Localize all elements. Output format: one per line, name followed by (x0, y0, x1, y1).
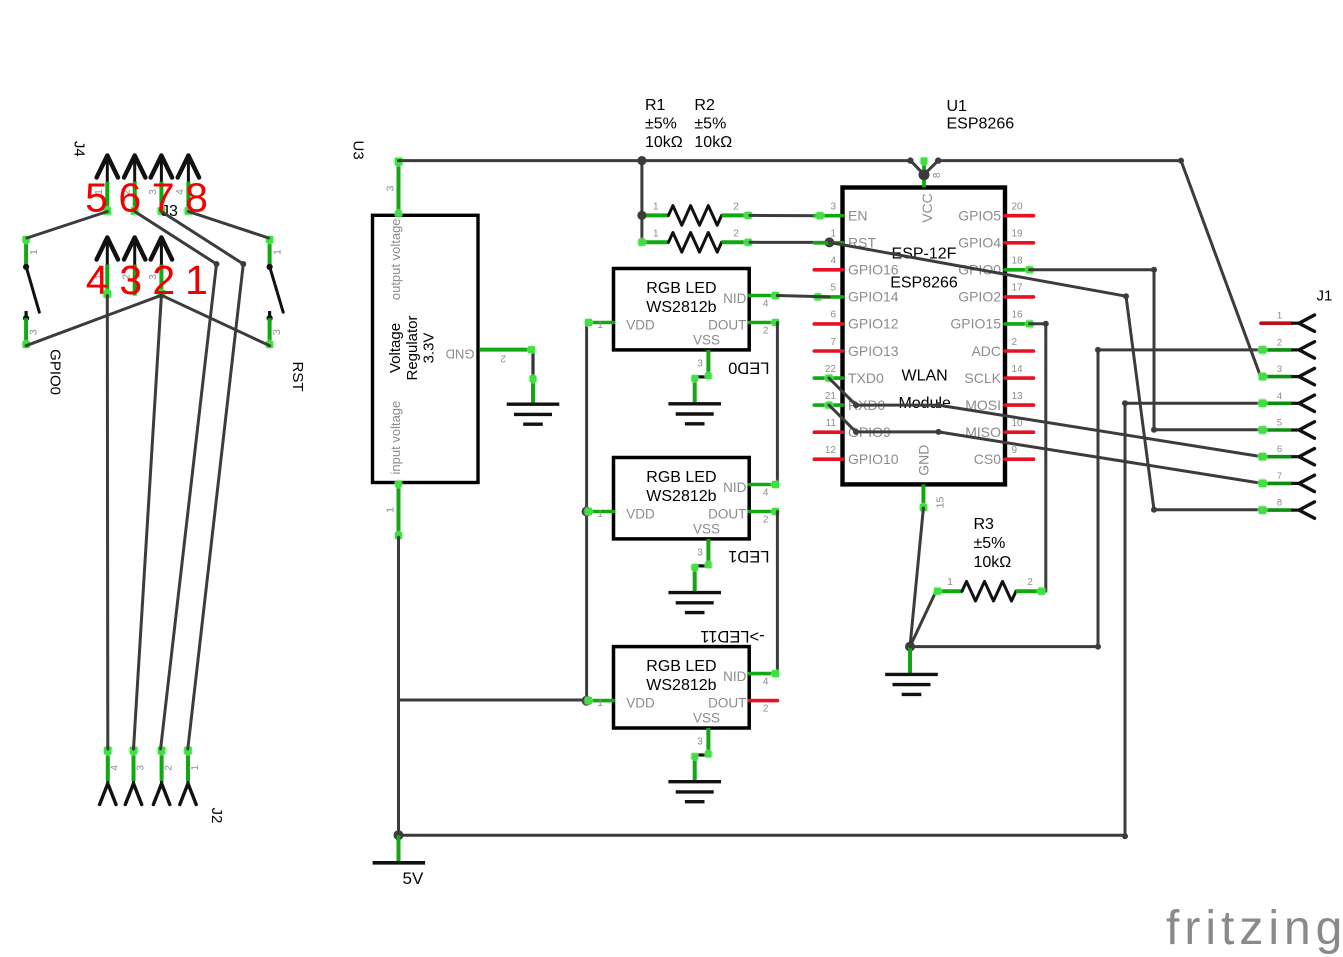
svg-text:2: 2 (152, 257, 175, 303)
svg-text:3.3V: 3.3V (420, 333, 437, 364)
resistor R3 (933, 577, 1047, 601)
svg-text:3: 3 (697, 547, 703, 558)
U1 VCC pin (919, 156, 943, 187)
svg-text:RGB LED: RGB LED (646, 469, 716, 486)
U1 pins and stubs (814, 202, 1033, 468)
resistor R2 (637, 229, 753, 253)
svg-text:DOUT: DOUT (708, 507, 746, 522)
RGB LED LED0 (WS2812b) (584, 269, 781, 404)
label LED0 (728, 358, 769, 376)
wire U1.RXD0 to J1.7 (829, 405, 1261, 483)
svg-text:2: 2 (1277, 337, 1282, 348)
wire VDD vertical rail (585, 323, 588, 701)
svg-text:22: 22 (825, 364, 837, 375)
svg-text:±5%: ±5% (645, 115, 677, 132)
svg-text:7: 7 (1277, 471, 1282, 482)
svg-text:1: 1 (1277, 311, 1282, 322)
svg-text:3: 3 (271, 329, 283, 335)
fritzing watermark (1166, 902, 1343, 955)
svg-text:2: 2 (763, 704, 769, 715)
svg-text:WS2812b: WS2812b (646, 677, 716, 694)
svg-text:RGB LED: RGB LED (646, 658, 716, 675)
wire R1.2 to U1.EN (750, 214, 829, 217)
wire J4.3 to J2.1 (161, 212, 246, 750)
svg-text:16: 16 (1012, 310, 1024, 321)
node 3.3V junction at VCC pin (919, 169, 930, 180)
connector J2 (100, 745, 225, 823)
wire GND junction to R3.1 (910, 591, 936, 646)
svg-text:GPIO12: GPIO12 (848, 316, 899, 332)
svg-text:GPIO14: GPIO14 (848, 289, 899, 305)
svg-text:1: 1 (385, 507, 397, 513)
power symbol 5V (373, 835, 426, 888)
svg-text:3: 3 (697, 358, 703, 369)
svg-text:J1: J1 (1317, 288, 1333, 305)
svg-text:GPIO10: GPIO10 (848, 451, 899, 467)
resistor R1 (637, 202, 753, 226)
label R2 value (694, 97, 732, 151)
svg-text:14: 14 (1012, 364, 1024, 375)
svg-text:8: 8 (932, 172, 943, 178)
wire U1.RST to J1.8 (829, 242, 1260, 512)
svg-text:input voltage: input voltage (388, 401, 403, 475)
wire VCC right diagonal (924, 157, 941, 174)
node RST junction (824, 237, 834, 247)
svg-text:J2: J2 (208, 807, 225, 823)
svg-text:1: 1 (653, 202, 659, 213)
svg-text:1: 1 (597, 320, 603, 331)
svg-text:VSS: VSS (693, 522, 720, 537)
U3 pin 2 GND lead (480, 345, 538, 404)
svg-text:output voltage: output voltage (388, 218, 403, 300)
svg-text:6: 6 (830, 310, 836, 321)
pushbutton RST (265, 235, 306, 392)
svg-text:LED1: LED1 (728, 547, 769, 565)
svg-text:10kΩ: 10kΩ (694, 134, 732, 151)
svg-text:2: 2 (1027, 577, 1033, 588)
label LED11 (700, 627, 764, 645)
svg-text:GPIO2: GPIO2 (958, 289, 1001, 305)
svg-text:4: 4 (763, 299, 769, 310)
svg-text:DOUT: DOUT (708, 696, 746, 711)
svg-text:2: 2 (763, 326, 769, 337)
svg-text:2: 2 (1012, 337, 1018, 348)
svg-text:VDD: VDD (626, 318, 655, 333)
svg-text:3: 3 (385, 185, 397, 191)
svg-text:R2: R2 (694, 97, 715, 114)
label R1 value (645, 97, 683, 151)
svg-text:R3: R3 (974, 516, 995, 533)
svg-text:NID: NID (723, 669, 747, 684)
svg-text:U1: U1 (947, 98, 968, 115)
RGB LED LED1 (WS2812b) (584, 458, 781, 593)
svg-text:4: 4 (1277, 391, 1282, 402)
ground (LED2) (668, 782, 721, 802)
svg-text:21: 21 (825, 391, 837, 402)
node 5V junction (394, 830, 404, 840)
wire U1.GPIO0 to J1.5 (1030, 267, 1261, 433)
svg-text:4: 4 (86, 257, 109, 303)
svg-text:15: 15 (935, 497, 947, 509)
svg-text:2: 2 (763, 515, 769, 526)
net labels 5 6 7 8 / 4 3 2 1 (85, 175, 208, 304)
wire LED0.DIN to U1.GPIO14 (777, 296, 829, 297)
svg-text:U3: U3 (349, 141, 366, 160)
wire J4.1 to GPIO0.1 (27, 212, 107, 239)
U3 pin 1 input (385, 479, 404, 540)
wire VCC left diagonal (907, 157, 924, 174)
svg-text:VSS: VSS (693, 333, 720, 348)
svg-text:VDD: VDD (626, 507, 655, 522)
label U1 (947, 98, 1015, 133)
node VDD at LED1 (582, 507, 592, 517)
U1 connected pin markers (813, 211, 1035, 410)
svg-text:1: 1 (190, 765, 201, 771)
svg-text:5: 5 (830, 283, 836, 294)
svg-text:NID: NID (723, 480, 747, 495)
svg-text:10kΩ: 10kΩ (974, 554, 1012, 571)
svg-text:1: 1 (830, 229, 836, 240)
U3 pin 3 output (385, 156, 404, 218)
wire U1.GPIO15 to R3.2 (1030, 321, 1049, 591)
svg-text:ADC: ADC (971, 343, 1001, 359)
svg-text:4: 4 (110, 765, 121, 771)
svg-text:17: 17 (1012, 283, 1024, 294)
connector J1 (1257, 288, 1332, 519)
svg-text:2: 2 (733, 229, 739, 240)
svg-text:Regulator: Regulator (404, 315, 421, 380)
wire R1/R2 feed (vertical) (640, 161, 643, 243)
svg-text:3: 3 (697, 737, 703, 748)
svg-text:SCLK: SCLK (964, 370, 1001, 386)
node VDD at LED2 (582, 696, 592, 706)
connector J4 (71, 141, 199, 217)
svg-text:1: 1 (947, 577, 953, 588)
svg-text:Module: Module (898, 395, 951, 412)
wire GPIO0.3 to J3.3 (26, 295, 161, 345)
svg-text:11: 11 (826, 418, 837, 429)
connector J3 (94, 203, 178, 299)
svg-text:RGB LED: RGB LED (646, 280, 716, 297)
wire J3.3 to J2.3 (134, 296, 162, 750)
svg-text:19: 19 (1012, 229, 1024, 240)
svg-text:6: 6 (118, 175, 141, 221)
svg-text:12: 12 (825, 445, 837, 456)
svg-text:EN: EN (848, 208, 867, 224)
svg-text:2: 2 (500, 353, 506, 364)
wire U3.1 to 5V (397, 537, 400, 835)
svg-text:20: 20 (1012, 202, 1024, 213)
svg-text:4: 4 (763, 677, 769, 688)
svg-text:3: 3 (119, 257, 142, 303)
wire J4.2 to J2.2 (135, 212, 220, 750)
svg-text:1: 1 (185, 257, 208, 303)
voltage regulator U3 (349, 141, 478, 483)
svg-text:3: 3 (135, 765, 146, 771)
wire LED1.DOUT to LED2.DIN (776, 512, 779, 674)
svg-text:±5%: ±5% (694, 115, 726, 132)
svg-text:1: 1 (597, 698, 603, 709)
wire 3.3V rail U3.3 to VCC (399, 159, 911, 162)
svg-text:±5%: ±5% (974, 535, 1006, 552)
wire LED0.DOUT to LED1.DIN (776, 323, 779, 485)
U1 GND pin (918, 484, 946, 512)
svg-text:CS0: CS0 (974, 451, 1001, 467)
ground (U1) (885, 647, 938, 695)
svg-text:18: 18 (1012, 256, 1024, 267)
svg-text:7: 7 (152, 175, 175, 221)
svg-text:9: 9 (1012, 445, 1018, 456)
svg-text:GPIO15: GPIO15 (950, 316, 1001, 332)
node GND junction (905, 642, 915, 652)
svg-text:VDD: VDD (626, 696, 655, 711)
svg-text:NID: NID (723, 291, 747, 306)
svg-text:VCC: VCC (919, 193, 935, 223)
op-amp U1 ESP8266 body (843, 188, 1006, 485)
wire VDD branch 5V to LEDs (399, 699, 587, 702)
svg-text:2: 2 (733, 202, 739, 213)
svg-text:WS2812b: WS2812b (646, 488, 716, 505)
svg-text:GND: GND (446, 346, 475, 361)
RGB LED LED2 (WS2812b) (584, 647, 781, 782)
svg-text:5V: 5V (403, 869, 424, 888)
wire 3.3V rail VCC to J1.3 (938, 161, 1260, 377)
wire RST.3 to J3.3 (162, 295, 270, 345)
svg-text:13: 13 (1012, 391, 1024, 402)
wire U1.GND down (910, 508, 923, 647)
svg-text:1: 1 (653, 229, 659, 240)
wire J1.4 to 5V bus (1122, 400, 1261, 839)
svg-text:6: 6 (1277, 444, 1282, 455)
svg-text:8: 8 (185, 175, 208, 221)
svg-text:->LED11: ->LED11 (700, 627, 764, 645)
svg-text:J4: J4 (71, 141, 88, 157)
ground (LED1) (668, 593, 721, 613)
svg-text:5: 5 (1277, 418, 1282, 429)
svg-text:R1: R1 (645, 97, 666, 114)
wire J3.1 to J2.4 (106, 296, 110, 750)
label LED1 (728, 547, 769, 565)
svg-text:TXD0: TXD0 (848, 370, 884, 386)
wire R2.2 to U1.RST (750, 241, 829, 244)
svg-text:ESP8266: ESP8266 (947, 116, 1015, 133)
wire J1.2 to GND junction (910, 347, 1261, 650)
svg-text:WS2812b: WS2812b (646, 299, 716, 316)
pushbutton GPIO0 (21, 235, 63, 396)
node 3.3V junction at R1/R2 column (637, 156, 646, 165)
svg-text:8: 8 (1277, 498, 1282, 509)
ground (LED0) (668, 404, 721, 424)
svg-text:ESP8266: ESP8266 (890, 275, 958, 292)
svg-text:GND: GND (915, 445, 931, 476)
node bend top-right (1178, 158, 1184, 164)
svg-text:fritzing: fritzing (1166, 902, 1343, 955)
svg-text:1: 1 (271, 249, 283, 255)
label R3 value (974, 516, 1012, 571)
wire U1.TXD0 to J1.6 (829, 378, 1261, 456)
svg-text:4: 4 (830, 256, 836, 267)
wire 5V bus (399, 834, 1126, 837)
svg-text:7: 7 (830, 337, 836, 348)
svg-text:DOUT: DOUT (708, 318, 746, 333)
svg-text:2: 2 (164, 765, 175, 771)
svg-text:3: 3 (27, 329, 39, 335)
svg-text:1: 1 (597, 509, 603, 520)
svg-text:WLAN: WLAN (901, 367, 947, 384)
svg-text:GPIO13: GPIO13 (848, 343, 899, 359)
svg-text:Voltage: Voltage (387, 323, 404, 373)
svg-text:GPIO16: GPIO16 (848, 262, 899, 278)
svg-text:3: 3 (830, 202, 836, 213)
svg-text:5: 5 (85, 175, 108, 221)
svg-text:RST: RST (289, 362, 306, 392)
ground (U3) (507, 404, 560, 424)
svg-text:3: 3 (1277, 364, 1282, 375)
svg-text:LED0: LED0 (728, 358, 769, 376)
svg-text:GPIO0: GPIO0 (46, 349, 63, 395)
svg-text:4: 4 (763, 488, 769, 499)
wire J4.4 to RST.1 (188, 212, 268, 239)
svg-text:GPIO5: GPIO5 (958, 208, 1001, 224)
svg-text:VSS: VSS (693, 711, 720, 726)
svg-text:GPIO4: GPIO4 (958, 235, 1001, 251)
svg-text:10kΩ: 10kΩ (645, 134, 683, 151)
svg-text:1: 1 (28, 249, 40, 255)
